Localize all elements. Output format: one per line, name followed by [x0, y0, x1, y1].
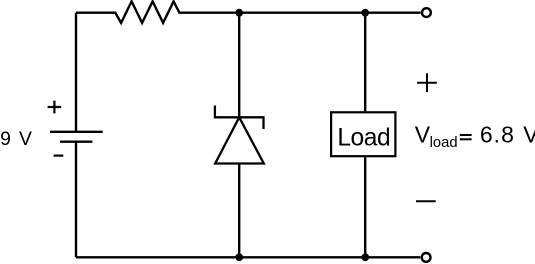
svg-text:6.8: 6.8	[480, 122, 515, 148]
svg-text:9: 9	[0, 128, 11, 150]
svg-text:Load: Load	[337, 125, 390, 152]
svg-text:V: V	[19, 128, 32, 150]
svg-text:V: V	[415, 122, 431, 148]
svg-text:load: load	[430, 135, 458, 151]
svg-text:V: V	[523, 122, 535, 148]
